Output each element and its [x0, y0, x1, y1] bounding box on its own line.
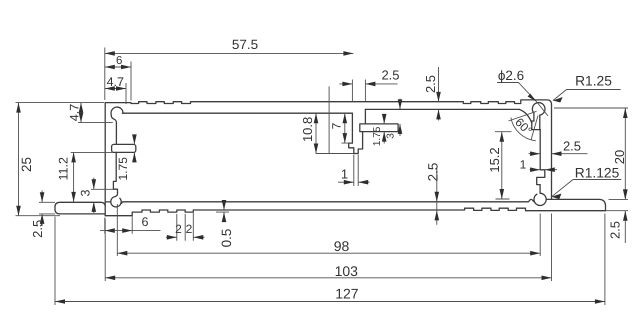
- arrows 2,2 bottom (outside): [167, 235, 177, 240]
- dim 103: exts + line: [105, 214, 551, 282]
- arrows 6 top: [105, 65, 115, 70]
- arrows 1 right (outside): [530, 167, 540, 172]
- svg-text:2.5: 2.5: [425, 163, 440, 182]
- middle boss right edge: [364, 109, 366, 124]
- svg-text:2.5: 2.5: [563, 139, 581, 154]
- top wall inner surface, right section: [365, 108, 519, 110]
- arrows 7: [343, 113, 348, 123]
- dim 2.5 top-middle extensions+line: [339, 80, 397, 102]
- svg-text:4.7: 4.7: [68, 104, 82, 121]
- bottom wall inner surface (main span with left curl): [122, 202, 529, 204]
- arrows 2.5 right bottom (outside): [623, 189, 628, 199]
- dim 0.5: ext + line: [216, 201, 229, 223]
- svg-text:2.5: 2.5: [30, 220, 45, 238]
- svg-text:2.5: 2.5: [423, 75, 438, 93]
- arrows 4.7 vertical left: [79, 103, 84, 113]
- arrows 103: [105, 276, 115, 281]
- svg-text:1: 1: [341, 167, 348, 182]
- svg-text:15.2: 15.2: [487, 147, 502, 172]
- right screw-boss underside curve: [519, 109, 532, 123]
- svg-text:R1.25: R1.25: [575, 74, 612, 89]
- svg-text:25: 25: [19, 157, 34, 172]
- arrow R1.25 leader: [553, 97, 563, 103]
- top wall inner surface, left section: [122, 112, 352, 114]
- arrows 6 bottom: [105, 228, 115, 233]
- arrows 11.2: [71, 152, 76, 162]
- bottom-right clip: open circle, tangent from staircase, into tail: [534, 193, 546, 205]
- phi2.6 screw channel circle (open at bottom): [532, 103, 545, 116]
- dim 6 bottom: exts + line: [100, 217, 161, 234]
- arrows 4.7 top: [105, 86, 115, 91]
- middle boss: [349, 113, 363, 153]
- arrow phi2.6 leader: [528, 94, 537, 102]
- svg-text:0.5: 0.5: [219, 229, 234, 248]
- top wall outer with serrations: [105, 100, 551, 105]
- svg-text:ϕ2.6: ϕ2.6: [498, 68, 524, 83]
- dim 2.5 bottom-left: line + ext stubs: [39, 191, 55, 227]
- svg-text:2: 2: [175, 222, 182, 236]
- svg-text:10.8: 10.8: [300, 117, 315, 142]
- dim 2.5 bottom middle (bottom wall thickness): line: [436, 168, 438, 224]
- svg-text:2.5: 2.5: [608, 221, 623, 239]
- R1.125 leader + underline: [552, 180, 622, 197]
- svg-text:20: 20: [612, 150, 627, 164]
- dim 3 right (slot gap): line: [399, 99, 401, 137]
- svg-text:3: 3: [386, 133, 397, 139]
- dim 10.8: vertical ext + ext + line: [316, 86, 354, 153]
- arrows 10.8: [314, 113, 319, 123]
- 60 degree wedge lines + arc: [509, 111, 539, 141]
- svg-text:57.5: 57.5: [232, 37, 258, 52]
- dim 4.7 horizontal extension+line: [105, 83, 126, 104]
- svg-text:98: 98: [334, 238, 350, 254]
- dim 1.75 right (band): line: [383, 114, 385, 144]
- middle boss PCB rail band: [360, 124, 398, 132]
- arrows 2.5 bottom middle (outside): [435, 192, 440, 202]
- phi2.6 screw channel slot walls + flare: [532, 113, 540, 130]
- dim 11.2 left: ext + line: [71, 152, 113, 202]
- left wall outer: [104, 103, 106, 216]
- svg-text:6: 6: [142, 215, 149, 229]
- dim 2.5 right wall: line: [529, 153, 588, 155]
- left wall PCB tab (rounded bar): [112, 144, 136, 152]
- dim 6 (top) extension+line: [105, 62, 131, 101]
- svg-text:127: 127: [335, 286, 359, 302]
- arrows 3 left (outside): [92, 179, 97, 189]
- arrows 25: [16, 103, 21, 113]
- right tail plate top + end: [546, 199, 605, 210]
- dim 98: exts + line: [117, 204, 540, 256]
- right wall outer: [551, 105, 553, 200]
- right wall inner with notch staircase: [537, 130, 545, 194]
- arrows 2.5 top-middle (outside): [342, 82, 352, 87]
- dim 2.5 top-right (wall thickness) line: [438, 67, 440, 121]
- dim 127: exts + line: [55, 214, 605, 306]
- left wall inner below tab with jog: [113, 152, 117, 192]
- arrows 1.75 right (outside): [382, 114, 387, 124]
- arrows 1.75 left (outside): [132, 134, 137, 144]
- top-left clip: circle open with hook: [111, 107, 123, 144]
- bottom wall outer with foot and serrations: [105, 208, 605, 216]
- dim 7: ext + line: [342, 113, 349, 143]
- arrows 1 middle (outside): [344, 180, 354, 185]
- svg-text:2: 2: [186, 222, 193, 236]
- svg-text:1.75: 1.75: [372, 126, 383, 146]
- svg-text:103: 103: [335, 263, 359, 279]
- arrows 57.5: [105, 51, 115, 56]
- arrows 20: [623, 108, 628, 118]
- dim 2,2 bottom: exts + line: [166, 213, 205, 241]
- left tail plate (top+end+bottom, rounded left end, fillet into wall): [55, 202, 105, 214]
- arrows 127: [55, 299, 65, 304]
- arrows 0.5 (outside): [222, 200, 227, 210]
- bottom-left clip: hook + open circle: [115, 193, 118, 197]
- bottom-right clip neck bump on inner surface: [528, 199, 534, 201]
- arrows 98: [117, 251, 127, 256]
- dim 1 middle: exts + line: [338, 155, 370, 187]
- arrows 2.5 right wall (outside): [530, 151, 540, 156]
- R1.25 leader + underline: [553, 90, 621, 101]
- dim 3 left: ext + line: [91, 178, 113, 213]
- phi2.6 leader with underline: [497, 83, 548, 116]
- arrows 2.5 top-right (outside): [436, 92, 441, 102]
- dim 25 left: ext lines + dimension line: [16, 103, 105, 216]
- arrows 15.2: [500, 132, 505, 142]
- svg-text:11.2: 11.2: [57, 157, 71, 180]
- dim 20 + 2.5 right: exts + line: [554, 108, 628, 243]
- svg-text:R1.125: R1.125: [575, 165, 620, 180]
- svg-text:3: 3: [79, 189, 93, 196]
- dim 57.5 extension+line: [105, 48, 354, 101]
- svg-text:2.5: 2.5: [381, 68, 399, 83]
- dim 15.2: exts + line: [495, 132, 512, 199]
- svg-text:1.75: 1.75: [116, 157, 130, 181]
- arrows 2.5 bottom-left (outside): [40, 192, 45, 202]
- bottom wall inner stub left of clip: [105, 201, 111, 203]
- arrow R1.125 leader: [552, 194, 562, 200]
- svg-text:7: 7: [330, 122, 344, 129]
- svg-text:4.7: 4.7: [107, 75, 124, 89]
- dim 1 right: line: [530, 169, 558, 171]
- arrows 3 right (outside): [398, 99, 403, 109]
- svg-text:6: 6: [116, 55, 122, 67]
- svg-text:1: 1: [520, 158, 527, 172]
- dim 1.75 left (tab): line: [133, 136, 135, 162]
- dim 4.7 vertical left: ext + line: [78, 103, 113, 123]
